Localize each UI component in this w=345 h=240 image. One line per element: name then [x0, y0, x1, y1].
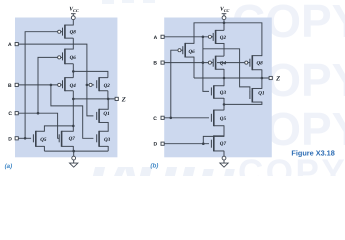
node D junction: [24, 137, 27, 140]
wire Q1 drain to node Z: [107, 99, 109, 110]
node Z junction 2 (b): [261, 77, 264, 80]
wire input A (b): [164, 36, 208, 38]
wire node Z column down: [72, 99, 74, 126]
wire input A: [18, 44, 93, 116]
node ground junction (a): [72, 150, 75, 153]
wire Q6 source to node Z rail: [193, 57, 195, 78]
svg-text:(b): (b): [150, 162, 158, 169]
node N1 junction: [72, 70, 75, 73]
wire B branch to Q3 gate: [51, 85, 94, 138]
wire Q4 source to node Z: [72, 91, 74, 99]
caption (a): [5, 163, 13, 170]
ground (a): [70, 151, 78, 167]
power VCC (a): [69, 7, 79, 20]
ground (b): [220, 151, 228, 168]
wire Q5 drain up to node Z column: [44, 126, 73, 132]
node Z junction left: [72, 98, 75, 101]
svg-text:Q6: Q6: [70, 55, 77, 61]
input terminal C (b): [153, 116, 164, 122]
node A junction at Q2 gate: [86, 84, 89, 87]
background panel (a): [15, 18, 117, 158]
wire Q3 drain to node Z: [223, 78, 225, 86]
wire Q7 drain up: [223, 135, 225, 137]
wire A branch to Q3 gate: [203, 37, 209, 92]
background panel (b): [164, 18, 272, 158]
wire C branch to Q6 gate: [171, 50, 178, 118]
caption (b): [150, 162, 158, 169]
svg-text:Q3: Q3: [104, 137, 111, 143]
svg-text:VCC: VCC: [220, 7, 230, 13]
wire Q3 source to node N2: [223, 98, 225, 110]
node B junction (b): [202, 61, 205, 64]
wire Q3 source to ground rail: [107, 146, 109, 151]
transistor Q6 (b): [178, 43, 195, 58]
svg-text:C: C: [8, 111, 12, 117]
wire input D: [18, 137, 31, 139]
wire Q7 drain to junction: [72, 126, 74, 132]
transistor Q4 (b): [208, 56, 226, 70]
wire VCC to Q8 drain: [72, 20, 74, 26]
transistor Q7: [59, 131, 75, 147]
node Z rail (b): [194, 77, 269, 79]
node B junction: [50, 84, 53, 87]
svg-text:Q8: Q8: [70, 30, 77, 36]
wire input C (b): [164, 117, 209, 119]
output terminal Z (b): [269, 75, 280, 82]
svg-text:D: D: [8, 136, 12, 142]
svg-text:Q5: Q5: [220, 116, 227, 122]
wire Q2 source to Q4 drain: [223, 43, 225, 56]
transistor Q1: [97, 109, 110, 123]
node D junction (b): [202, 142, 205, 145]
svg-text:D: D: [154, 142, 158, 148]
transistor Q8: [58, 25, 77, 39]
transistor Q7 (b): [211, 135, 226, 151]
svg-text:Q1: Q1: [258, 90, 265, 96]
wire Q8 source to Q6 drain: [72, 38, 74, 49]
input terminal B: [8, 83, 18, 89]
wire node N1 rail to Q2 drain: [73, 71, 108, 77]
transistor Q2 (b): [208, 30, 226, 44]
node C junction (b): [170, 117, 173, 120]
transistor Q6: [58, 49, 77, 65]
transistor Q2: [89, 77, 110, 91]
wire Q5 source to ground rail: [43, 146, 45, 151]
node A junction (b): [202, 36, 205, 39]
svg-text:Q3: Q3: [220, 90, 227, 96]
wire Q8 source to node Z: [261, 70, 263, 79]
input terminal D: [8, 136, 18, 142]
svg-text:A: A: [154, 35, 158, 41]
wire input C: [18, 113, 59, 138]
transistor Q3: [97, 131, 111, 147]
svg-text:(a): (a): [5, 163, 13, 170]
svg-text:Figure X3.18: Figure X3.18: [291, 149, 334, 158]
wire Q7 source to ground rail: [72, 146, 74, 151]
transistor Q3 (b): [211, 85, 226, 98]
wire C branch to Q6 gate: [38, 57, 58, 113]
wire Q5 source down: [223, 125, 225, 136]
caption Figure X3.18: [291, 149, 334, 158]
svg-text:Q4: Q4: [70, 83, 77, 89]
svg-text:Q2: Q2: [104, 83, 111, 89]
wire Q1 drain to node Z: [261, 78, 263, 89]
svg-text:B: B: [153, 61, 157, 67]
wire Q4 source to node Z: [223, 69, 225, 78]
node junction Z column: [72, 125, 75, 128]
wire Q8 gate tie: [217, 62, 245, 64]
svg-text:Q8: Q8: [257, 60, 264, 66]
transistor Q4: [58, 77, 77, 91]
node Z rail: [73, 98, 115, 100]
ground rail (a): [44, 150, 108, 152]
svg-text:Q7: Q7: [220, 141, 227, 147]
wire D branch up: [203, 136, 224, 143]
wire D branch to Q8 gate: [25, 32, 58, 139]
wire VCC top rail right to Q8 drain: [224, 23, 262, 56]
svg-text:A: A: [8, 42, 12, 48]
wire VCC stem: [223, 20, 225, 31]
svg-text:C: C: [153, 116, 157, 122]
wire input B: [18, 84, 57, 86]
svg-text:Q4: Q4: [220, 61, 227, 67]
transistor Q5: [33, 131, 46, 147]
wire input D (b): [164, 143, 209, 145]
input terminal C: [8, 111, 18, 117]
wire input B (b): [164, 62, 208, 64]
svg-text:Q2: Q2: [220, 35, 227, 41]
transistor Q5 (b): [211, 110, 226, 127]
node N2 junction (b): [223, 103, 226, 106]
input terminal A (b): [154, 35, 165, 41]
transistor Q8 (b): [245, 55, 263, 70]
svg-text:Q5: Q5: [40, 137, 47, 143]
svg-text:Q7: Q7: [69, 136, 76, 142]
svg-text:B: B: [8, 83, 12, 89]
wire Q6 source to node N1: [72, 64, 74, 72]
power VCC (b): [220, 7, 230, 20]
svg-text:Z: Z: [121, 96, 126, 103]
node Z junction right: [107, 98, 110, 101]
svg-text:Q1: Q1: [103, 111, 110, 117]
wire Q1 source to Q3 drain: [107, 122, 109, 132]
svg-text:VCC: VCC: [69, 7, 79, 13]
node VCC junction: [223, 22, 226, 25]
wire Q2 source to node Z: [107, 91, 109, 99]
wire Q4 drain to node N1: [72, 71, 74, 77]
wire A branch to Q1 gate: [203, 49, 250, 91]
wire VCC top rail left to Q6 drain: [194, 23, 224, 44]
output terminal Z: [115, 96, 126, 103]
input terminal D (b): [154, 142, 165, 148]
node Z junction 1 (b): [223, 77, 226, 80]
wire node N2 rail to Q1 source: [224, 102, 262, 105]
input terminal B (b): [153, 61, 164, 67]
input terminal A: [8, 42, 18, 48]
node C junction: [37, 112, 40, 115]
svg-text:Z: Z: [275, 75, 280, 82]
transistor Q1 (b): [250, 88, 265, 103]
svg-text:Q6: Q6: [189, 49, 196, 55]
